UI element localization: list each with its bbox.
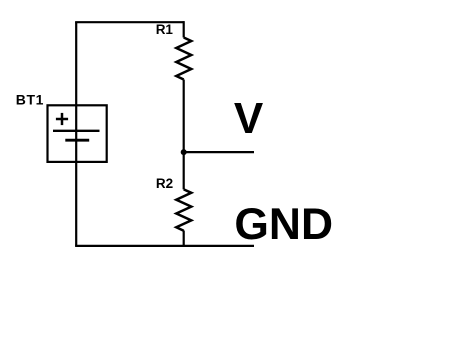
svg-text:BT1: BT1 bbox=[16, 92, 44, 108]
svg-text:V: V bbox=[234, 94, 264, 143]
svg-text:R2: R2 bbox=[156, 176, 173, 191]
svg-text:R1: R1 bbox=[156, 22, 174, 37]
svg-text:GND: GND bbox=[234, 200, 333, 249]
